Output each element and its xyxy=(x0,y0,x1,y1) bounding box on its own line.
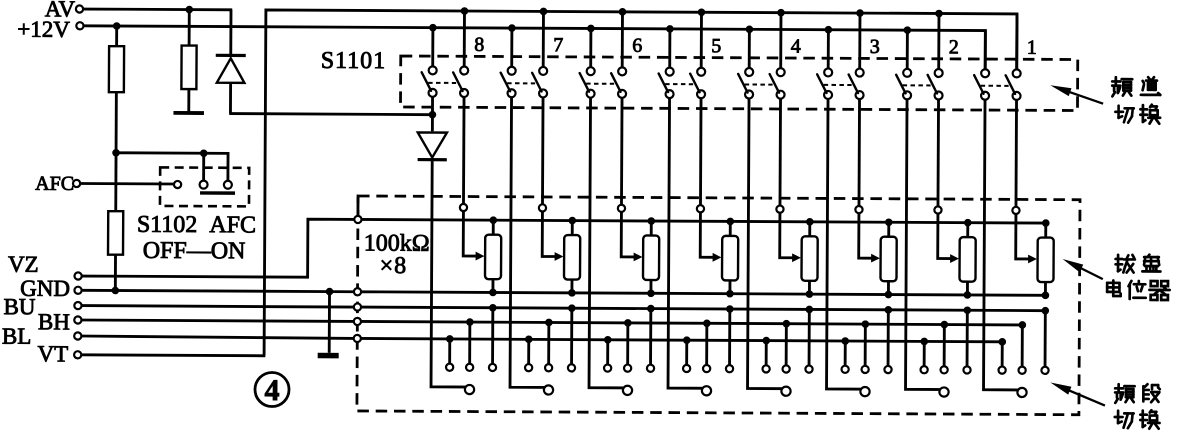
terminal GND xyxy=(20,276,82,301)
svg-text:BU: BU xyxy=(3,294,35,319)
switch S1101 channel 1 pole1 xyxy=(974,69,989,100)
node channel 8 band selector common contact xyxy=(465,385,474,394)
junction pot2 top on VZ rail xyxy=(964,219,972,227)
junction R3/GND xyxy=(112,287,120,295)
wire channel 6 pole1 to band selector xyxy=(589,98,633,388)
potentiometer RP2 100k channel 2 xyxy=(959,223,975,295)
wiper arrow channel 3 xyxy=(871,254,880,263)
junction AV/R2 xyxy=(185,6,193,14)
wire channel 7 gang link (dashed) xyxy=(507,82,535,84)
wiper arrow channel 7 xyxy=(555,252,564,261)
band contact BH channel 2 xyxy=(940,321,948,374)
svg-text:S1101: S1101 xyxy=(321,48,387,74)
terminal AFC xyxy=(35,173,80,195)
node channel 1 wiper connector xyxy=(1012,207,1019,214)
terminal BU xyxy=(3,294,81,319)
svg-text:8: 8 xyxy=(474,34,484,56)
node channel 2 pole1 tap on +12V bus xyxy=(904,26,912,34)
wire channel 6 wiper arm xyxy=(621,212,635,257)
node channel 4 pole1 tap on +12V bus xyxy=(746,25,754,33)
band contact BU channel 6 xyxy=(647,305,655,372)
wire VZ to pot rail xyxy=(82,218,355,277)
wire channel 7 pole1 to band selector xyxy=(510,97,554,387)
node BU rail connector xyxy=(354,303,361,310)
band contact BH channel 3 xyxy=(861,320,869,373)
wire channel 1 pole1 stub xyxy=(984,31,987,70)
node channel 8 wiper connector xyxy=(460,204,467,211)
wire +12V bus xyxy=(83,26,985,69)
label circled 4 xyxy=(255,372,289,407)
switch S1101 channel 5 pole2 xyxy=(690,68,705,99)
node channel 4 pole2 tap on VT bus xyxy=(777,9,785,17)
terminal VT xyxy=(37,341,81,366)
node channel 2 wiper connector xyxy=(934,206,941,213)
potentiometer/band dashed box xyxy=(357,196,1080,415)
switch S1101 channel 8 pole2 xyxy=(453,66,468,97)
wire BH rail xyxy=(361,321,1022,324)
terminal BL xyxy=(2,324,82,349)
switch S1101 channel 4 pole1 xyxy=(738,68,753,99)
wire channel 3 pole2 stub xyxy=(858,13,861,68)
node channel 3 pole2 tap on VT bus xyxy=(856,9,864,17)
node channel 5 band selector common contact xyxy=(702,386,711,395)
wire channel 3 pole2 to wiper xyxy=(858,99,861,206)
junction pot5 bottom on GND rail xyxy=(726,290,734,298)
band contact BU channel 7 xyxy=(568,304,576,371)
wire channel 3 wiper arm xyxy=(859,213,873,258)
wire channel 6 pole1 stub xyxy=(589,28,592,67)
band contact BL channel 7 xyxy=(525,336,533,372)
wire channel 3 pole1 stub xyxy=(827,30,830,69)
wire channel 6 gang link (dashed) xyxy=(586,83,614,85)
wire channel 1 pole2 stub xyxy=(1015,14,1018,69)
node channel 5 wiper connector xyxy=(697,205,704,212)
wire channel 1 pole1 to band selector xyxy=(984,100,1028,390)
svg-text:VZ: VZ xyxy=(8,252,39,277)
wiper arrow channel 4 xyxy=(792,253,801,262)
wire channel 4 gang link (dashed) xyxy=(745,83,773,85)
band contact BH channel 7 xyxy=(545,319,553,372)
label pindao qiehuan (channel switch) xyxy=(1112,77,1160,124)
node GND rail connector xyxy=(354,288,361,295)
wire channel 8 pole1 lower xyxy=(431,161,475,387)
wire channel 7 pole1 stub xyxy=(510,28,513,67)
node channel 7 wiper connector xyxy=(539,204,546,211)
wire S1102 center contact xyxy=(202,153,205,180)
junction pot8 bottom on GND rail xyxy=(489,289,497,297)
band contact BL channel 8 xyxy=(446,335,454,371)
arrow to channel switch box xyxy=(1050,85,1103,103)
node channel 7 pole2 tap on VT bus xyxy=(540,8,548,16)
switch S1101 channel 6 pole2 xyxy=(611,67,626,98)
wire channel 5 pole2 to wiper xyxy=(699,98,702,205)
terminal +12V xyxy=(17,17,83,42)
switch S1101 channel 7 pole2 xyxy=(532,67,547,98)
junction S1102 center contact xyxy=(200,149,208,157)
band contact BL channel 5 xyxy=(683,336,691,372)
wire BL rail xyxy=(361,338,1002,341)
wire node AV-diode to channel 8 xyxy=(229,114,432,115)
switch S1102 bridge bar xyxy=(200,191,235,195)
wire channel 3 pole1 to band selector xyxy=(827,99,871,389)
node BH rail connector xyxy=(354,318,361,325)
wire channel 5 pole1 to band selector xyxy=(668,98,712,388)
junction pot5 top on VZ rail xyxy=(726,218,734,226)
wire channel 4 pole2 to wiper xyxy=(779,99,782,206)
node channel 5 pole1 tap on +12V bus xyxy=(666,25,674,33)
wire channel 2 pole1 stub xyxy=(906,30,909,69)
S1101 dashed box (channel switch) xyxy=(400,56,1077,111)
wire channel 8 pole1 upper xyxy=(431,97,434,131)
wire channel 2 wiper arm xyxy=(938,214,952,259)
node channel 7 pole1 tap on +12V bus xyxy=(508,24,516,32)
node channel 2 pole2 tap on VT bus xyxy=(935,10,943,18)
potentiometer RP1 100k channel 1 xyxy=(1037,223,1053,295)
wire pot top rail (VZ) xyxy=(362,219,1046,223)
diode VD1 xyxy=(215,10,246,114)
wiper arrow channel 2 xyxy=(950,254,959,263)
node channel 6 wiper connector xyxy=(618,205,625,212)
junction pot4 top on VZ rail xyxy=(806,218,814,226)
wire BU rail xyxy=(361,307,1045,311)
wiper arrow channel 1 xyxy=(1028,255,1037,264)
band contact BU channel 2 xyxy=(963,306,971,373)
junction pot1 bottom on GND rail xyxy=(1042,292,1050,300)
wire GND xyxy=(82,290,354,291)
node channel 1 band selector common contact xyxy=(1017,388,1026,397)
diode VD2 xyxy=(418,132,447,161)
wire channel 5 pole1 stub xyxy=(668,29,671,68)
wire BU xyxy=(82,306,354,307)
wire channel 8 pole1 stub xyxy=(431,28,434,67)
junction pot3 top on VZ rail xyxy=(885,218,893,226)
wire VT xyxy=(81,353,265,357)
wire to S1102 xyxy=(116,153,228,181)
junction +12V/R1 xyxy=(113,22,121,30)
node BL rail connector xyxy=(354,335,361,342)
switch S1101 channel 3 pole1 xyxy=(817,68,832,99)
node channel 4 wiper connector xyxy=(776,206,783,213)
switch S1101 channel 2 pole2 xyxy=(928,69,943,100)
svg-text:S1102 AFC: S1102 AFC xyxy=(137,212,256,239)
wire channel 4 pole2 stub xyxy=(779,13,782,68)
wire BH xyxy=(81,320,353,321)
switch S1101 channel 6 pole1 xyxy=(580,67,595,98)
wire channel 8 gang link (dashed) xyxy=(428,82,456,84)
wire BL xyxy=(81,336,353,338)
wiper arrow channel 8 xyxy=(476,252,485,261)
junction pot3 bottom on GND rail xyxy=(885,291,893,299)
label pinduan qiehuan (band switch) xyxy=(1115,384,1160,429)
node channel 6 pole2 tap on VT bus xyxy=(619,8,627,16)
svg-text:VT: VT xyxy=(37,341,68,366)
wire channel 2 pole2 stub xyxy=(937,13,940,68)
junction pot7 top on VZ rail xyxy=(568,217,576,225)
band contact BL channel 3 xyxy=(841,337,849,373)
node channel 6 band selector common contact xyxy=(623,386,632,395)
svg-text:4: 4 xyxy=(791,36,801,58)
ground under R2 xyxy=(173,111,204,115)
switch S1101 channel 8 pole1 xyxy=(422,66,437,97)
switch S1102 contacts xyxy=(174,180,232,188)
band contact BH channel 8 xyxy=(466,318,474,371)
junction pot8 top on VZ rail xyxy=(489,216,497,224)
wire channel 2 pole1 to band selector xyxy=(906,99,950,389)
wire AV line xyxy=(83,8,232,12)
node channel 3 wiper connector xyxy=(855,206,862,213)
switch S1101 channel 4 pole2 xyxy=(770,68,785,99)
wire channel 8 wiper arm xyxy=(463,211,477,256)
wire channel 7 wiper arm xyxy=(542,212,556,257)
svg-text:AFC: AFC xyxy=(35,173,74,195)
band contact BH channel 4 xyxy=(782,320,790,373)
svg-text:2: 2 xyxy=(949,36,959,58)
wire channel 8 pole2 to wiper xyxy=(462,97,465,204)
junction channel 8 node with AV diode line xyxy=(429,111,437,119)
node channel 2 band selector common contact xyxy=(939,387,948,396)
junction GND/ground drop xyxy=(326,288,334,296)
wire channel 1 pole2 to wiper xyxy=(1015,100,1018,207)
switch S1101 channel 7 pole1 xyxy=(501,67,516,98)
resistor R2 xyxy=(181,10,197,112)
band contact BU channel 4 xyxy=(805,306,813,373)
band contact BL channel 6 xyxy=(604,336,612,372)
switch S1101 channel 3 pole2 xyxy=(849,69,864,100)
band contact BL channel 1 xyxy=(998,338,1006,374)
node channel 4 band selector common contact xyxy=(781,387,790,396)
band contact BU channel 3 xyxy=(884,306,892,373)
ground symbol xyxy=(318,292,339,359)
resistor R1 xyxy=(109,26,125,153)
band contact BH channel 5 xyxy=(703,319,711,372)
wire channel 7 pole2 stub xyxy=(542,11,545,66)
potentiometer RP5 100k channel 5 xyxy=(722,221,738,293)
junction pot6 bottom on GND rail xyxy=(647,289,655,297)
switch S1102 dashed box xyxy=(160,167,249,206)
resistor R3 xyxy=(108,153,124,291)
svg-text:4: 4 xyxy=(264,374,279,407)
wire channel 2 pole2 to wiper xyxy=(937,99,940,206)
node channel 3 band selector common contact xyxy=(860,387,869,396)
svg-text:BL: BL xyxy=(2,324,32,349)
band contact BL channel 2 xyxy=(920,338,928,374)
node channel 1 pole2 tap on VT bus xyxy=(0,0,1,1)
wire channel 4 pole1 stub xyxy=(748,29,751,68)
node channel 8 pole1 tap on +12V bus xyxy=(429,24,437,32)
svg-text:BH: BH xyxy=(38,309,70,334)
wire channel 4 wiper arm xyxy=(780,213,794,258)
switch S1101 channel 1 pole2 xyxy=(1006,69,1021,100)
wire channel 4 pole1 to band selector xyxy=(748,99,792,389)
node VZ rail connector xyxy=(354,216,361,223)
junction pot4 bottom on GND rail xyxy=(806,290,814,298)
wire channel 6 pole2 to wiper xyxy=(620,98,623,205)
wire channel 7 pole2 to wiper xyxy=(541,97,544,204)
node channel 3 pole1 tap on +12V bus xyxy=(825,26,833,34)
band contact BU channel 1 xyxy=(1041,307,1049,374)
wire channel 1 gang link (dashed) xyxy=(981,85,1009,87)
svg-text:7: 7 xyxy=(553,34,563,56)
junction pot6 top on VZ rail xyxy=(647,217,655,225)
terminal AV xyxy=(45,0,83,22)
potentiometer RP4 100k channel 4 xyxy=(801,222,817,294)
wire channel 5 gang link (dashed) xyxy=(665,83,693,85)
wire channel 5 wiper arm xyxy=(700,212,714,257)
svg-text:OFF—ON: OFF—ON xyxy=(143,238,246,265)
arrow to band switch box xyxy=(1050,382,1105,405)
node channel 8 pole2 tap on VT bus xyxy=(461,7,469,15)
wire channel 1 wiper arm xyxy=(1016,214,1030,259)
node channel 1 pole1 tap on +12V bus xyxy=(0,0,1,1)
wiper arrow channel 5 xyxy=(713,253,722,262)
switch S1101 channel 2 pole1 xyxy=(896,69,911,100)
svg-text:3: 3 xyxy=(870,36,880,58)
potentiometer RP8 100k channel 8 xyxy=(485,220,501,292)
svg-text:1: 1 xyxy=(1027,37,1037,59)
svg-text:×8: ×8 xyxy=(380,253,408,279)
node channel 6 pole1 tap on +12V bus xyxy=(587,25,595,33)
wire channel 3 gang link (dashed) xyxy=(824,84,852,86)
junction R1/R3 node xyxy=(112,149,120,157)
arrow to dial potentiometer xyxy=(1063,259,1103,279)
junction pot1 top on VZ rail xyxy=(1042,219,1050,227)
wire VZ rail entry tick xyxy=(356,197,359,216)
switch S1101 channel 5 pole1 xyxy=(659,68,674,99)
wire channel 6 pole2 stub xyxy=(621,12,624,67)
svg-text:6: 6 xyxy=(632,35,642,57)
wire VT bus (top) xyxy=(264,10,1017,360)
wire pot bottom rail (GND) xyxy=(361,292,1045,296)
band contact BH channel 1 xyxy=(1018,321,1026,374)
wire AFC xyxy=(80,182,174,185)
junction pot2 bottom on GND rail xyxy=(964,291,972,299)
wire channel 5 pole2 stub xyxy=(700,12,703,67)
band contact BL channel 4 xyxy=(762,337,770,373)
band contact BU channel 8 xyxy=(489,304,497,371)
svg-text:+12V: +12V xyxy=(17,17,70,42)
terminal VZ xyxy=(8,252,82,280)
band contact BH channel 6 xyxy=(624,319,632,372)
wire channel 2 gang link (dashed) xyxy=(903,84,931,86)
svg-text:5: 5 xyxy=(711,35,721,57)
potentiometer RP3 100k channel 3 xyxy=(880,222,896,294)
wire channel 8 pole2 stub xyxy=(463,11,466,66)
band contact BU channel 5 xyxy=(726,305,734,372)
wiper arrow channel 6 xyxy=(634,253,643,262)
label bopan dianweiqi (dial potentiometer) xyxy=(1107,254,1170,300)
potentiometer RP6 100k channel 6 xyxy=(643,221,659,293)
terminal BH xyxy=(38,309,82,334)
junction pot7 bottom on GND rail xyxy=(568,289,576,297)
potentiometer RP7 100k channel 7 xyxy=(564,221,580,293)
node channel 5 pole2 tap on VT bus xyxy=(698,8,706,16)
node channel 7 band selector common contact xyxy=(544,385,553,394)
